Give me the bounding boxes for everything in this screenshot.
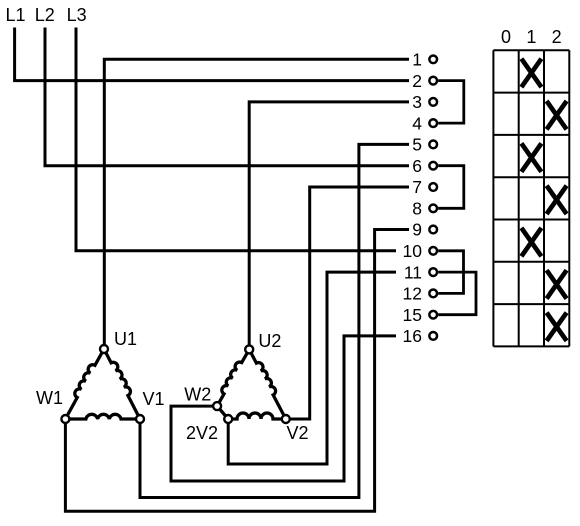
contact closed mark row 7 position 2 [547,313,567,341]
terminal 7 [412,177,437,197]
node V1 [136,389,165,423]
svg-text:L2: L2 [35,5,55,25]
phase label L3 [67,5,87,25]
svg-text:11: 11 [404,262,422,282]
jumper terminals 11-15 [438,272,476,315]
wire terminal 5 to V1 [140,144,409,497]
node U2 [245,331,281,353]
svg-text:2: 2 [552,27,562,47]
wire terminal 7 to V2 [286,187,409,419]
contact closed mark row 1 position 1 [521,59,541,87]
phase label L2 [35,5,55,25]
wire terminal 3 to U2 [249,102,409,350]
svg-text:U1: U1 [114,329,137,349]
terminal 1 [412,50,437,70]
contact closed mark row 2 position 2 [547,101,567,129]
svg-text:5: 5 [412,135,422,155]
contact closed mark row 5 position 1 [521,228,541,256]
terminal 8 [412,199,437,219]
node 2V2 [186,415,232,443]
node V2 [282,415,309,443]
wire terminal 9 to W1 [65,230,409,512]
jumper terminals 6-8 [438,166,464,209]
node W2 [184,385,221,411]
switch position header 0 [501,27,511,47]
svg-text:7: 7 [412,177,422,197]
svg-text:4: 4 [412,113,422,133]
terminal 16 [403,326,438,346]
svg-text:2V2: 2V2 [186,423,218,443]
terminal 5 [412,135,437,155]
terminal 10 [403,241,438,261]
contact closed mark row 3 position 1 [521,143,541,171]
phase label L1 [6,5,26,25]
svg-text:0: 0 [501,27,511,47]
svg-text:15: 15 [403,305,422,325]
svg-text:16: 16 [403,326,422,346]
svg-text:3: 3 [412,92,422,112]
svg-text:10: 10 [403,241,423,261]
terminal 12 [403,284,438,304]
svg-text:1: 1 [526,27,536,47]
svg-text:V1: V1 [143,389,165,409]
motor winding M1 bottom side W1-V1 [65,414,140,419]
terminal 3 [412,92,437,112]
terminal 4 [412,113,437,133]
wire L1 to terminal 2 [15,28,409,81]
motor winding M1 right side U1-V1 [104,349,140,419]
wire terminal 11 to 2V2 [228,272,396,464]
terminal 6 [412,156,437,176]
wire terminal 1 to U1 [104,59,409,349]
node W1 [36,388,69,423]
wire L2 to terminal 6 [45,28,409,166]
wire L3 to terminal 10 [76,28,396,251]
motor winding M1 left side W1-U1 [65,349,104,419]
motor winding M2 left side W2-U2 [217,349,249,406]
switch position header 1 [526,27,536,47]
svg-text:L3: L3 [67,5,87,25]
wire W2 to 2V2 [217,406,228,419]
terminal 2 [412,71,437,91]
svg-text:W2: W2 [184,385,211,405]
wire terminal 16 to W2 [171,336,396,481]
contact closed mark row 6 position 2 [547,270,567,298]
svg-text:U2: U2 [258,331,281,351]
svg-text:12: 12 [403,284,422,304]
svg-text:V2: V2 [287,423,309,443]
svg-text:6: 6 [412,156,422,176]
switch position header 2 [552,27,562,47]
jumper terminals 10-12 [438,251,463,294]
svg-text:1: 1 [412,50,422,70]
terminal 11 [404,262,437,282]
svg-text:2: 2 [412,71,422,91]
contact table grid [493,50,569,346]
jumper terminals 2-4 [438,81,464,124]
motor winding M2 bottom side 2V2-V2 [228,413,286,419]
motor winding M2 right side U2-V2 [249,349,286,419]
svg-text:8: 8 [412,199,422,219]
svg-text:W1: W1 [36,388,63,408]
svg-text:9: 9 [412,220,422,240]
terminal 9 [412,220,437,240]
node U1 [100,329,137,353]
contact closed mark row 4 position 2 [547,186,567,214]
svg-text:L1: L1 [6,5,26,25]
terminal 15 [403,305,438,325]
